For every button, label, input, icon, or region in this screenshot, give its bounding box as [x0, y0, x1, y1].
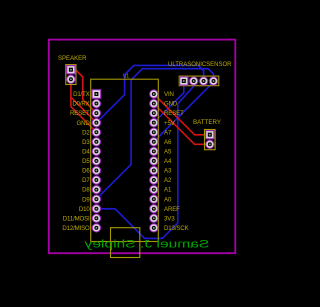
speaker connector outline — [66, 65, 76, 85]
svg-text:VIN: VIN — [164, 91, 174, 98]
speaker pad 2 — [67, 75, 75, 83]
wire: speaker pad2 to U1 GND (F.Cu) — [71, 79, 97, 122]
svg-text:AREF: AREF — [164, 206, 180, 213]
U1 pin 6 pad (D3) — [92, 138, 100, 146]
ultrasonic pad 1 — [180, 77, 188, 85]
U1 pin 24 pad (A3) — [150, 166, 158, 174]
svg-text:D0/RX: D0/RX — [72, 101, 89, 108]
board edge rectangle — [49, 40, 236, 254]
svg-text:A5: A5 — [164, 149, 172, 156]
U1 pin 1 pad (D1/TX) — [92, 90, 101, 99]
U1 pin 25 pad (A2) — [150, 176, 158, 184]
U1 pin 16 pad (VIN) — [150, 90, 158, 98]
svg-text:D5: D5 — [82, 158, 90, 165]
svg-text:D11/MOSI: D11/MOSI — [63, 215, 90, 222]
U1 pin 23 pad (A4) — [150, 157, 158, 165]
svg-text:A0: A0 — [164, 196, 172, 203]
battery pad 1 — [206, 131, 214, 139]
svg-text:A7: A7 — [164, 129, 172, 136]
wire: U1 VIN to battery + (F.Cu) — [154, 94, 210, 135]
U1 pin 26 pad (A1) — [150, 185, 158, 193]
wire: ultrasonic pad2 to U1 D10 (B.Cu) — [96, 81, 193, 238]
svg-text:Samuel J. Shipley: Samuel J. Shipley — [84, 238, 210, 250]
U1 pin 27 pad (A0) — [150, 195, 158, 203]
U1 pin 29 pad (3V3) — [150, 214, 158, 222]
U1 pin 30 pad (D13/SCK) — [150, 224, 158, 232]
svg-text:RESET: RESET — [70, 110, 90, 117]
U1 pin 14 pad (D11/MOSI) — [92, 214, 100, 222]
U1 pin 4 pad (GND) — [92, 119, 100, 127]
svg-text:+5V: +5V — [164, 120, 176, 127]
U1 pin 11 pad (D8) — [92, 185, 100, 193]
U1 pin 2 pad (D0/RX) — [92, 99, 100, 107]
U1 pin 18 pad (RESET) — [150, 109, 158, 117]
svg-text:A1: A1 — [164, 187, 172, 194]
ultrasonic pad 4 — [209, 77, 217, 85]
U1 pin 7 pad (D4) — [92, 147, 100, 155]
svg-text:D12/MISO: D12/MISO — [62, 225, 90, 232]
U1 pin 21 pad (A6) — [150, 138, 158, 146]
svg-text:D6: D6 — [82, 168, 90, 175]
U1 pin 12 pad (D9) — [92, 195, 100, 203]
svg-text:A4: A4 — [164, 158, 172, 165]
ultrasonic pad 3 — [199, 77, 207, 85]
U1 pin 10 pad (D7) — [92, 176, 100, 184]
svg-text:BATTERY: BATTERY — [193, 119, 222, 126]
svg-text:D13/SCK: D13/SCK — [164, 225, 189, 232]
svg-text:A6: A6 — [164, 139, 172, 146]
svg-text:D10: D10 — [79, 206, 90, 213]
wire: speaker pad2 branch to U1 D2 (F.Cu) — [71, 97, 97, 132]
battery pad 2 — [206, 140, 214, 148]
U1 pin 5 pad (D2) — [92, 128, 100, 136]
speaker pad 1 — [67, 66, 75, 74]
U1 pin 19 pad (+5V) — [150, 119, 158, 127]
U1 pin 9 pad (D6) — [92, 166, 100, 174]
svg-text:D8: D8 — [82, 187, 90, 194]
U1 pin 28 pad (AREF) — [150, 205, 158, 213]
U1 pin 17 pad (GND) — [150, 99, 158, 107]
svg-text:D9: D9 — [82, 196, 90, 203]
svg-text:D7: D7 — [82, 177, 90, 184]
svg-text:GND: GND — [77, 120, 91, 127]
svg-text:ULTRASONICSENSOR: ULTRASONICSENSOR — [168, 61, 232, 68]
svg-text:RESET: RESET — [164, 110, 184, 117]
wire: U1 GND to battery - (F.Cu) — [154, 104, 210, 145]
U1 pin 8 pad (D5) — [92, 157, 100, 165]
U1 pin 22 pad (A5) — [150, 147, 158, 155]
U1 pin 13 pad (D10) — [92, 205, 100, 213]
svg-text:A3: A3 — [164, 168, 172, 175]
battery connector outline — [205, 130, 216, 150]
wire: speaker pad1 to U1 RESET (F.Cu) — [71, 70, 97, 113]
svg-text:D2: D2 — [82, 129, 90, 136]
wire: ultrasonic pad4 to U1 A6 (B.Cu) — [154, 81, 214, 142]
svg-text:D1/TX: D1/TX — [73, 91, 90, 98]
svg-text:SPEAKER: SPEAKER — [58, 55, 87, 62]
svg-text:A2: A2 — [164, 177, 172, 184]
svg-text:U1: U1 — [123, 74, 129, 80]
U1 pin 15 pad (D12/MISO) — [92, 224, 100, 232]
U1 pin 20 pad (A7) — [150, 128, 158, 136]
svg-text:D3: D3 — [82, 139, 90, 146]
ultrasonic sensor connector outline — [179, 76, 219, 86]
svg-text:D4: D4 — [82, 149, 90, 156]
wire: ultrasonic pad1 to U1 +5V (B.Cu) — [154, 81, 184, 123]
svg-text:GND: GND — [164, 101, 178, 108]
svg-text:3V3: 3V3 — [164, 215, 175, 222]
U1 pin 3 pad (RESET) — [92, 109, 100, 117]
U1 USB connector outline — [111, 228, 140, 258]
wire: ultrasonic pad3 to U1 left GND (B.Cu) — [96, 65, 203, 122]
ultrasonic pad 2 — [190, 77, 198, 85]
wire: ultrasonic pad4 to U1 D9 (B.Cu) — [96, 69, 213, 199]
mirrored silkscreen text: Samuel J. Shipley — [84, 238, 210, 250]
op-amp/module U1 body outline — [91, 79, 159, 241]
